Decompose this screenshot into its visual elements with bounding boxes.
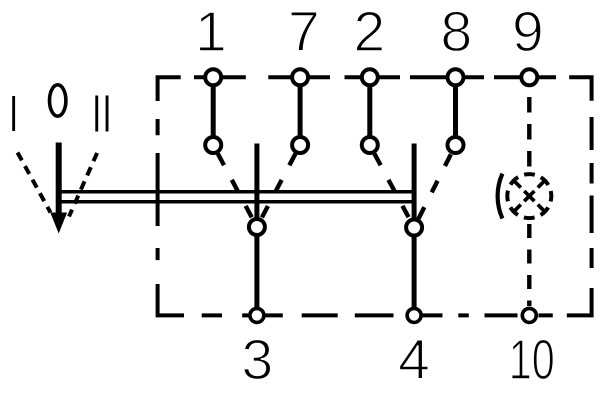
terminal circle pin4 bbox=[407, 308, 421, 322]
corner bottom-right bbox=[567, 288, 592, 315]
wire stem pin2 bbox=[367, 77, 372, 145]
wire stem contact4 to pin4 bbox=[412, 144, 417, 316]
contact circle pin7 lower bbox=[292, 137, 308, 153]
wire stem pin8 bbox=[453, 77, 458, 145]
throw line pin1 to contact3 (dashed) bbox=[218, 154, 257, 227]
corner top-left bbox=[158, 77, 181, 101]
wire bottom border dashes bbox=[202, 313, 553, 317]
terminal circle pin9 bbox=[521, 69, 537, 85]
switch enclosure dashed border bbox=[158, 77, 592, 315]
moving contact circle node 3 bbox=[249, 219, 265, 235]
corner top-right bbox=[569, 77, 591, 100]
svg-text:8: 8 bbox=[440, 0, 472, 64]
lamp L1 (illumination) dashed circle bbox=[507, 174, 551, 218]
terminal circle pin2 bbox=[362, 69, 378, 85]
corner bottom-left bbox=[158, 284, 184, 315]
wire pin9 to lamp dashed bbox=[527, 97, 531, 169]
throw line pin2 to contact4 (dashed) bbox=[375, 154, 415, 228]
terminal circle pin10 bbox=[522, 308, 536, 322]
svg-text:10: 10 bbox=[509, 328, 555, 392]
wire lamp to pin10 dashed bbox=[527, 224, 531, 306]
terminal circle pin1 bbox=[205, 69, 221, 85]
wire stem pin1 bbox=[211, 77, 216, 145]
wire top border dashes bbox=[194, 75, 556, 79]
label 0 bbox=[50, 85, 66, 116]
svg-text:2: 2 bbox=[353, 0, 385, 64]
svg-text:4: 4 bbox=[398, 328, 430, 392]
svg-text:7: 7 bbox=[288, 0, 320, 64]
lamp L1 filament cross (dashed X) bbox=[513, 180, 546, 213]
contact circle pin1 lower bbox=[205, 137, 221, 153]
svg-text:9: 9 bbox=[512, 0, 544, 64]
wire left border dashes bbox=[156, 119, 160, 260]
throw line pin8 to contact4 (dashed) bbox=[414, 154, 451, 227]
dashed arrow position I bbox=[18, 153, 51, 213]
wire stem pin7 bbox=[298, 77, 303, 145]
terminal circle pin3 bbox=[250, 308, 264, 322]
actuator bar (double line) bbox=[56, 192, 416, 202]
contact circle pin2 lower bbox=[362, 137, 378, 153]
lamp L1 reflector arc bbox=[498, 174, 503, 219]
contact circle pin8 lower bbox=[448, 137, 464, 153]
wire right border dashes bbox=[590, 117, 594, 268]
throw line pin7 to contact3 (dashed) bbox=[257, 154, 296, 227]
svg-text:3: 3 bbox=[241, 328, 273, 392]
label II bbox=[95, 96, 98, 132]
dashed arrow position II bbox=[69, 153, 97, 217]
label I bbox=[12, 96, 15, 131]
terminal circle pin8 bbox=[448, 69, 464, 85]
terminal circle pin7 bbox=[292, 69, 308, 85]
svg-text:1: 1 bbox=[195, 0, 227, 64]
moving contact circle node 4 bbox=[406, 220, 422, 236]
actuator arrow (position 0) bbox=[50, 143, 67, 234]
wire stem contact3 to pin3 bbox=[254, 144, 259, 316]
